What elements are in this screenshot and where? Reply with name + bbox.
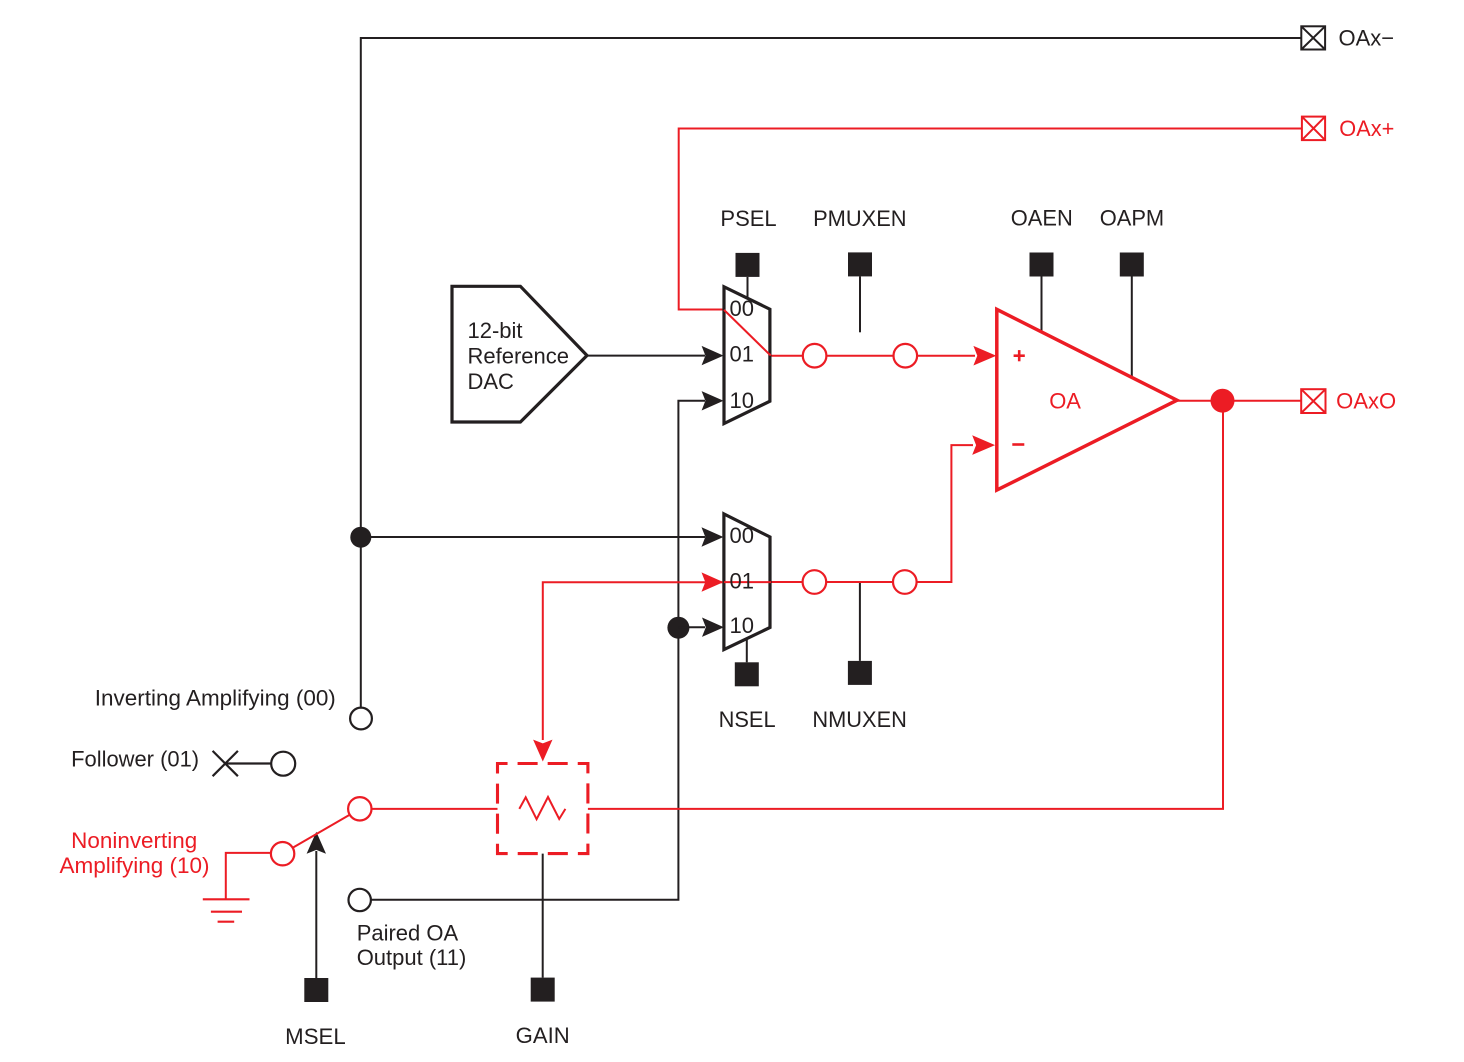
svg-text:OA: OA [1049, 389, 1081, 414]
node C junction dot on OA output [1211, 389, 1235, 413]
svg-text:00: 00 [730, 296, 754, 321]
svg-text:10: 10 [730, 613, 754, 638]
svg-text:00: 00 [730, 523, 754, 548]
wire noninverting amplifying branch to ground [226, 853, 271, 899]
wire paired-OA net: from Paired OA Output circle right, up to upper mux 10 input [371, 401, 705, 900]
svg-text:Reference: Reference [468, 344, 570, 369]
12-bit Reference DAC [452, 286, 587, 422]
arrowhead into mux M1 01 input [702, 346, 724, 365]
switch S1b contact circle on positive path [894, 344, 918, 368]
wire PMUXEN control stem [859, 276, 861, 332]
svg-text:Paired OA: Paired OA [357, 921, 459, 946]
wire MSEL switch arm (diagonal, closed to noninverting position) [293, 815, 350, 848]
wire upper switch run from upper mux output to OA + input [770, 355, 975, 357]
wire red selected path inside upper mux (00 to output) [724, 310, 770, 355]
wire feedback tap to lower mux 01 input [543, 582, 724, 740]
register bit square NMUXEN [848, 661, 872, 685]
wire MSEL control line with up arrow [315, 851, 317, 978]
svg-text:DAC: DAC [468, 369, 515, 394]
node B junction dot on paired-OA net at lower mux 10 branch [667, 617, 689, 639]
wire GAIN control stem [542, 854, 544, 978]
wire lower switch run from lower mux output up to OA - input [770, 445, 973, 582]
wire from DAC output to upper mux 01 input [587, 355, 705, 357]
svg-text:10: 10 [730, 388, 754, 413]
svg-text:12-bit: 12-bit [468, 318, 523, 343]
wire branch from node B to lower mux 10 input [678, 626, 705, 628]
mux M2 (negative input mux) [724, 514, 770, 650]
terminal OAx+ (crossed box) [1302, 117, 1325, 141]
arrowhead into gain resistor (red, down) [533, 740, 552, 762]
wire NMUXEN control stem [859, 582, 861, 661]
svg-text:Amplifying (10): Amplifying (10) [60, 853, 210, 878]
terminal OAx- (crossed box) [1301, 26, 1325, 49]
arrowhead into mux M2 00 input [702, 527, 724, 546]
op-amp - input symbol [1012, 443, 1024, 446]
wire from node A to lower mux 00 input [361, 536, 705, 538]
svg-text:OAxO: OAxO [1336, 389, 1396, 414]
arrowhead into OA + input (red) [973, 346, 996, 366]
wire OAPM control stem [1131, 277, 1133, 377]
node A junction dot on OAx- net [350, 527, 371, 548]
svg-text:01: 01 [730, 341, 754, 366]
svg-text:PMUXEN: PMUXEN [813, 206, 907, 231]
wire from gain resistor left to noninverting switch [372, 808, 498, 810]
svg-text:GAIN: GAIN [516, 1023, 570, 1048]
register bit square OAEN [1030, 253, 1054, 277]
svg-text:MSEL: MSEL [285, 1024, 346, 1049]
wire OA output to OAxO terminal [1177, 400, 1301, 402]
ground [203, 899, 250, 921]
switch contact circle: noninverting throw [271, 842, 294, 865]
register bit square GAIN [531, 978, 555, 1002]
wire OAx+ net: from OAx+ terminal left and down to upper mux 00 input [679, 129, 1302, 310]
svg-text:01: 01 [730, 568, 754, 593]
register bit square OAPM [1120, 253, 1144, 277]
register bit square NSEL [735, 662, 759, 686]
svg-text:NSEL: NSEL [719, 707, 776, 732]
switch contact circle: noninverting amplifying (10) position (pole) [348, 797, 371, 820]
svg-text:Follower (01): Follower (01) [71, 746, 199, 771]
follower (01) X symbol with contact circle [213, 751, 272, 776]
gain resistor zigzag [519, 797, 565, 819]
svg-text:NMUXEN: NMUXEN [812, 707, 907, 732]
wire red selected path inside upper mux redrawn over fill [724, 310, 771, 355]
svg-text:Output (11): Output (11) [357, 945, 467, 970]
wire red selected path inside lower mux (01 straight through) [724, 581, 771, 583]
svg-text:OAx+: OAx+ [1339, 116, 1394, 141]
svg-text:OAx−: OAx− [1339, 26, 1395, 51]
wire feedback net: from output node down and left to gain resistor [588, 401, 1223, 809]
arrowhead into mux M1 10 input [702, 391, 724, 410]
svg-text:Inverting Amplifying (00): Inverting Amplifying (00) [95, 686, 336, 711]
register bit square PMUXEN [848, 252, 872, 276]
svg-text:Noninverting: Noninverting [71, 828, 197, 853]
op-amp OA [997, 309, 1177, 490]
register bit square PSEL [736, 253, 760, 277]
arrowhead into mux M2 10 input [702, 618, 724, 637]
wire NSEL control stem [746, 639, 748, 663]
svg-text:OAEN: OAEN [1011, 206, 1073, 231]
op-amp + input symbol [1014, 350, 1025, 361]
switch S2b contact circle on negative path [893, 570, 917, 594]
svg-text:OAPM: OAPM [1100, 206, 1165, 231]
wire OAx- net: horizontal from OAx- terminal and vertical down left side [361, 38, 1302, 707]
gain resistor dashed box [498, 764, 588, 854]
wire PSEL control stem [747, 277, 749, 299]
arrowhead into mux M2 01 input (red) [702, 572, 724, 591]
register bit square MSEL [304, 978, 328, 1002]
switch S1a contact circle on positive path [803, 344, 827, 368]
switch S2a contact circle on negative path [803, 570, 827, 594]
switch contact circle: paired OA output (11) position [349, 889, 371, 911]
svg-text:PSEL: PSEL [720, 206, 776, 231]
terminal OAxO (crossed box) [1301, 389, 1325, 413]
mux M1 (positive input mux) [724, 287, 770, 424]
wire OAEN control stem [1041, 277, 1043, 332]
switch contact circle: inverting amplifying (00) position [350, 708, 372, 730]
arrowhead into OA - input (red) [972, 435, 995, 455]
